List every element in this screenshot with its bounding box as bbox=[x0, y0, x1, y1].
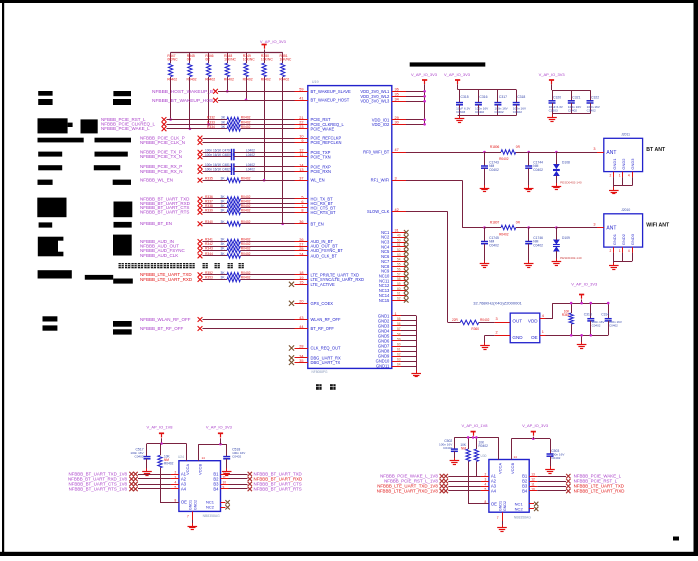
svg-text:C318: C318 bbox=[517, 95, 525, 99]
svg-text:C0603: C0603 bbox=[549, 109, 558, 113]
svg-text:36: 36 bbox=[299, 220, 303, 224]
svg-text:100n 16/1K C482: 100n 16/1K C482 bbox=[205, 168, 230, 172]
svg-text:21: 21 bbox=[299, 116, 303, 120]
svg-text:DBG_UART_TX: DBG_UART_TX bbox=[311, 360, 341, 365]
svg-text:NC15: NC15 bbox=[379, 298, 390, 303]
svg-text:NC2: NC2 bbox=[515, 506, 524, 511]
svg-text:C315: C315 bbox=[461, 95, 469, 99]
svg-text:BT_RF_OFF: BT_RF_OFF bbox=[311, 326, 335, 331]
svg-text:VDD: VDD bbox=[528, 319, 538, 324]
svg-text:R360: R360 bbox=[471, 327, 479, 331]
svg-text:30: 30 bbox=[395, 121, 399, 125]
svg-text:BT ANT: BT ANT bbox=[646, 147, 666, 153]
svg-text:NFBBB_HOST_WAKEUP_BT: NFBBB_HOST_WAKEUP_BT bbox=[152, 89, 216, 95]
svg-text:4: 4 bbox=[485, 482, 487, 486]
svg-text:GND1: GND1 bbox=[498, 501, 502, 511]
svg-text:7: 7 bbox=[497, 516, 499, 520]
svg-text:GND3: GND3 bbox=[630, 233, 635, 245]
svg-text:2: 2 bbox=[175, 470, 177, 474]
svg-text:U19: U19 bbox=[312, 80, 319, 84]
svg-text:2: 2 bbox=[610, 249, 612, 253]
svg-text:NFBBB_PCIE_CLK_N: NFBBB_PCIE_CLK_N bbox=[140, 140, 185, 145]
svg-text:R0402: R0402 bbox=[224, 78, 234, 82]
svg-text:C322: C322 bbox=[591, 96, 599, 100]
svg-text:VCCB: VCCB bbox=[510, 463, 515, 474]
svg-text:58: 58 bbox=[397, 277, 401, 281]
svg-text:4: 4 bbox=[628, 174, 630, 178]
svg-text:18: 18 bbox=[299, 271, 303, 275]
svg-text:5: 5 bbox=[485, 487, 487, 491]
svg-text:RF1_WIFI: RF1_WIFI bbox=[371, 178, 390, 183]
svg-text:0R/NC: 0R/NC bbox=[167, 57, 178, 61]
svg-text:32.768KHz(X4G)Z2000001: 32.768KHz(X4G)Z2000001 bbox=[473, 300, 522, 305]
svg-text:R344: R344 bbox=[205, 252, 213, 256]
svg-text:63: 63 bbox=[397, 358, 401, 362]
svg-text:C0603: C0603 bbox=[456, 110, 465, 114]
svg-text:C314: C314 bbox=[601, 313, 609, 317]
svg-text:OE: OE bbox=[181, 500, 187, 505]
svg-text:15: 15 bbox=[299, 281, 303, 285]
svg-text:C0402: C0402 bbox=[134, 455, 143, 459]
svg-text:64: 64 bbox=[397, 363, 401, 367]
svg-text:C0402: C0402 bbox=[551, 456, 560, 460]
svg-text:8: 8 bbox=[485, 500, 487, 504]
svg-text:VCCB: VCCB bbox=[198, 464, 203, 475]
svg-text:R336: R336 bbox=[205, 195, 213, 199]
svg-text:12: 12 bbox=[531, 477, 535, 481]
svg-text:35: 35 bbox=[395, 93, 399, 97]
svg-text:0R: 0R bbox=[187, 57, 192, 61]
svg-text:54: 54 bbox=[397, 258, 401, 262]
svg-text:V_AP_IO_3V3: V_AP_IO_3V3 bbox=[411, 72, 438, 77]
svg-text:C316: C316 bbox=[479, 95, 487, 99]
svg-text:R0402: R0402 bbox=[261, 78, 271, 82]
svg-text:GND1: GND1 bbox=[612, 233, 617, 245]
svg-text:12: 12 bbox=[223, 470, 227, 474]
svg-text:R335: R335 bbox=[205, 176, 213, 180]
svg-text:51: 51 bbox=[397, 243, 401, 247]
svg-text:VCCA: VCCA bbox=[497, 463, 502, 474]
svg-text:59: 59 bbox=[299, 88, 303, 92]
svg-text:V_AP_IO_3V3: V_AP_IO_3V3 bbox=[539, 72, 566, 77]
svg-text:59: 59 bbox=[397, 337, 401, 341]
svg-text:R0402: R0402 bbox=[205, 78, 215, 82]
svg-text:PESD0402-140: PESD0402-140 bbox=[560, 181, 582, 185]
svg-text:R334: R334 bbox=[207, 125, 215, 129]
svg-text:R1807: R1807 bbox=[490, 220, 500, 224]
svg-text:SLOW_CLK: SLOW_CLK bbox=[367, 209, 390, 214]
svg-text:PCIE_RXN: PCIE_RXN bbox=[311, 169, 332, 174]
svg-text:D108: D108 bbox=[562, 161, 570, 165]
svg-text:PCIE_REFCLKN: PCIE_REFCLKN bbox=[311, 140, 342, 145]
svg-text:U30: U30 bbox=[481, 454, 487, 458]
svg-text:C313: C313 bbox=[584, 313, 592, 317]
svg-text:VDD_IO2: VDD_IO2 bbox=[372, 122, 390, 127]
svg-text:R0402: R0402 bbox=[499, 157, 509, 161]
svg-text:27: 27 bbox=[299, 242, 303, 246]
svg-text:R337: R337 bbox=[205, 200, 213, 204]
svg-text:3: 3 bbox=[175, 475, 177, 479]
svg-text:HCI_RTS_BT: HCI_RTS_BT bbox=[311, 210, 336, 215]
svg-text:9: 9 bbox=[301, 139, 303, 143]
svg-text:4: 4 bbox=[175, 480, 177, 484]
svg-text:3: 3 bbox=[496, 317, 498, 321]
svg-text:B4: B4 bbox=[522, 488, 528, 493]
svg-text:3: 3 bbox=[485, 477, 487, 481]
svg-text:41: 41 bbox=[299, 97, 303, 101]
svg-text:61: 61 bbox=[397, 347, 401, 351]
svg-text:10: 10 bbox=[223, 480, 227, 484]
svg-text:10K/NC: 10K/NC bbox=[280, 57, 292, 61]
svg-text:RF0_WIFI_BT: RF0_WIFI_BT bbox=[363, 150, 390, 155]
svg-text:ANT: ANT bbox=[606, 225, 616, 231]
svg-text:20: 20 bbox=[299, 300, 303, 304]
svg-text:7: 7 bbox=[187, 515, 189, 519]
svg-text:R0402: R0402 bbox=[241, 176, 251, 180]
svg-text:R341: R341 bbox=[205, 238, 213, 242]
svg-text:R342: R342 bbox=[205, 242, 213, 246]
svg-text:1: 1 bbox=[542, 330, 544, 334]
svg-text:NFBBB_BT_UART_RTS: NFBBB_BT_UART_RTS bbox=[140, 210, 189, 215]
svg-text:62: 62 bbox=[397, 297, 401, 301]
svg-text:10K/NC: 10K/NC bbox=[243, 57, 255, 61]
svg-text:GND2: GND2 bbox=[621, 158, 626, 170]
svg-text:GND: GND bbox=[512, 335, 523, 340]
svg-text:A4: A4 bbox=[491, 488, 497, 493]
svg-text:C0402: C0402 bbox=[533, 168, 543, 172]
svg-text:V_AP_IO_1V8: V_AP_IO_1V8 bbox=[147, 425, 174, 430]
svg-text:C321: C321 bbox=[572, 96, 580, 100]
svg-text:60: 60 bbox=[397, 342, 401, 346]
svg-text:GND2: GND2 bbox=[193, 500, 197, 510]
svg-text:C0402: C0402 bbox=[232, 455, 241, 459]
svg-text:R0402: R0402 bbox=[243, 78, 253, 82]
svg-text:57: 57 bbox=[397, 327, 401, 331]
svg-text:5: 5 bbox=[301, 195, 303, 199]
svg-text:BT_EN: BT_EN bbox=[311, 221, 324, 226]
svg-text:V_AP_IO_3V3: V_AP_IO_3V3 bbox=[522, 423, 549, 428]
svg-text:WLAN_RF_OFF: WLAN_RF_OFF bbox=[311, 317, 342, 322]
svg-text:1: 1 bbox=[619, 249, 621, 253]
svg-text:61: 61 bbox=[397, 292, 401, 296]
svg-text:OE: OE bbox=[491, 501, 497, 506]
svg-text:57: 57 bbox=[397, 272, 401, 276]
svg-text:LTE_ACTIVE: LTE_ACTIVE bbox=[311, 282, 336, 287]
svg-text:1: 1 bbox=[619, 174, 621, 178]
svg-text:8: 8 bbox=[175, 499, 177, 503]
svg-text:NFBBB_LTE_UART_RXD: NFBBB_LTE_UART_RXD bbox=[140, 277, 193, 282]
svg-text:V_AP_IO_3V3: V_AP_IO_3V3 bbox=[571, 282, 598, 287]
svg-text:GND3: GND3 bbox=[630, 158, 635, 170]
svg-text:NFBBB_WL_EN: NFBBB_WL_EN bbox=[140, 178, 173, 183]
svg-text:GPS_COEX: GPS_COEX bbox=[311, 301, 334, 306]
svg-text:R0402: R0402 bbox=[241, 121, 251, 125]
svg-text:100n 16/1K C481: 100n 16/1K C481 bbox=[205, 163, 230, 167]
svg-text:ANT: ANT bbox=[606, 150, 616, 156]
svg-text:13: 13 bbox=[299, 168, 303, 172]
svg-text:NFBBB_BT_UART_RTS: NFBBB_BT_UART_RTS bbox=[254, 486, 302, 491]
svg-text:26: 26 bbox=[299, 238, 303, 242]
svg-text:8: 8 bbox=[301, 209, 303, 213]
svg-text:2: 2 bbox=[485, 472, 487, 476]
svg-text:0R: 0R bbox=[205, 57, 210, 61]
svg-text:28: 28 bbox=[299, 344, 303, 348]
svg-text:2: 2 bbox=[496, 331, 498, 335]
svg-text:GND1: GND1 bbox=[189, 500, 193, 510]
svg-text:GND11: GND11 bbox=[376, 364, 390, 369]
svg-text:3: 3 bbox=[593, 147, 595, 151]
svg-text:AUD_CLK_BT: AUD_CLK_BT bbox=[311, 253, 338, 258]
svg-text:OE: OE bbox=[531, 335, 538, 340]
svg-text:WIFI ANT: WIFI ANT bbox=[646, 222, 670, 228]
svg-text:NM: NM bbox=[461, 447, 466, 451]
svg-text:R0402: R0402 bbox=[241, 209, 251, 213]
svg-text:35: 35 bbox=[299, 359, 303, 363]
svg-text:25: 25 bbox=[299, 247, 303, 251]
svg-text:53: 53 bbox=[397, 253, 401, 257]
svg-text:R0402: R0402 bbox=[499, 233, 509, 237]
svg-text:44: 44 bbox=[299, 325, 303, 329]
svg-text:9: 9 bbox=[223, 485, 225, 489]
svg-text:NFBBB_WLAN_RF_OFF: NFBBB_WLAN_RF_OFF bbox=[140, 317, 191, 322]
svg-text:22R: 22R bbox=[452, 318, 459, 322]
svg-text:V_AP_IO_3V3: V_AP_IO_3V3 bbox=[260, 39, 287, 44]
svg-text:NFBBB_PCIE_WAKE_L: NFBBB_PCIE_WAKE_L bbox=[101, 126, 150, 131]
svg-text:R339: R339 bbox=[205, 209, 213, 213]
svg-text:GND2: GND2 bbox=[621, 233, 626, 245]
svg-text:24: 24 bbox=[299, 252, 303, 256]
svg-text:L0402: L0402 bbox=[246, 149, 255, 153]
svg-text:V_AP_IO_3V3: V_AP_IO_3V3 bbox=[206, 425, 233, 430]
svg-text:C0402: C0402 bbox=[475, 110, 484, 114]
svg-text:11: 11 bbox=[531, 482, 535, 486]
svg-text:NFBBB_BT_EN: NFBBB_BT_EN bbox=[140, 221, 172, 226]
svg-text:58: 58 bbox=[397, 332, 401, 336]
svg-text:R353: R353 bbox=[205, 276, 213, 280]
svg-text:OUT: OUT bbox=[512, 319, 522, 324]
svg-text:PCIE_TXN: PCIE_TXN bbox=[311, 154, 331, 159]
svg-text:R1806: R1806 bbox=[490, 145, 500, 149]
svg-text:NFBBB_AUD_CLK: NFBBB_AUD_CLK bbox=[140, 253, 178, 258]
svg-text:R0402: R0402 bbox=[164, 462, 174, 466]
svg-text:100n 16/1K C479: 100n 16/1K C479 bbox=[205, 149, 230, 153]
svg-text:C0402: C0402 bbox=[592, 323, 601, 327]
svg-text:GND1: GND1 bbox=[612, 158, 617, 170]
svg-text:NF8088PG: NF8088PG bbox=[312, 370, 328, 374]
svg-text:31: 31 bbox=[395, 229, 399, 233]
svg-text:R338: R338 bbox=[205, 204, 213, 208]
svg-text:55: 55 bbox=[397, 263, 401, 267]
svg-text:R0402: R0402 bbox=[187, 78, 197, 82]
svg-text:60: 60 bbox=[397, 287, 401, 291]
svg-text:V_AP_IO_3V3: V_AP_IO_3V3 bbox=[444, 72, 471, 77]
svg-text:50: 50 bbox=[397, 238, 401, 242]
svg-text:59: 59 bbox=[397, 282, 401, 286]
svg-text:NFBBB_LTE_UART_RXD_1V8: NFBBB_LTE_UART_RXD_1V8 bbox=[377, 488, 439, 493]
svg-text:10K/NC: 10K/NC bbox=[261, 57, 273, 61]
svg-text:14: 14 bbox=[299, 163, 303, 167]
svg-text:R0402: R0402 bbox=[241, 242, 251, 246]
svg-text:PESD0402-140: PESD0402-140 bbox=[560, 256, 582, 260]
svg-text:C0402: C0402 bbox=[609, 323, 618, 327]
svg-text:5: 5 bbox=[175, 485, 177, 489]
svg-text:NFBBB_BT_UART_RTS_1V8: NFBBB_BT_UART_RTS_1V8 bbox=[69, 486, 128, 491]
svg-text:34: 34 bbox=[299, 354, 303, 358]
svg-text:10: 10 bbox=[531, 487, 535, 491]
svg-text:22: 22 bbox=[299, 121, 303, 125]
svg-text:NFBBB_LTE_UART_RXD: NFBBB_LTE_UART_RXD bbox=[574, 488, 625, 493]
svg-text:56: 56 bbox=[397, 268, 401, 272]
svg-text:C317: C317 bbox=[499, 95, 507, 99]
svg-text:R0402: R0402 bbox=[167, 78, 177, 82]
svg-text:NFBBB_AUD_FSYNC: NFBBB_AUD_FSYNC bbox=[140, 248, 186, 253]
svg-text:42: 42 bbox=[395, 208, 399, 212]
svg-text:C0402: C0402 bbox=[513, 110, 522, 114]
svg-text:A4: A4 bbox=[181, 486, 187, 491]
svg-text:D109: D109 bbox=[562, 236, 570, 240]
svg-text:U24: U24 bbox=[178, 455, 184, 459]
svg-text:19: 19 bbox=[299, 276, 303, 280]
svg-text:NFBBB_PCIE_TX_N: NFBBB_PCIE_TX_N bbox=[140, 154, 182, 159]
svg-text:C320: C320 bbox=[553, 96, 561, 100]
svg-text:6: 6 bbox=[301, 200, 303, 204]
svg-text:R0402: R0402 bbox=[279, 78, 289, 82]
svg-text:VDD_3V0_WL3: VDD_3V0_WL3 bbox=[360, 99, 390, 104]
svg-text:BT_WAKEUP_HOST: BT_WAKEUP_HOST bbox=[311, 98, 350, 103]
svg-text:R332: R332 bbox=[207, 116, 215, 120]
svg-text:1: 1 bbox=[395, 312, 397, 316]
svg-text:AUD_FSYNC_BT: AUD_FSYNC_BT bbox=[311, 248, 344, 253]
svg-text:NB8358AG: NB8358AG bbox=[514, 516, 532, 520]
svg-text:43: 43 bbox=[299, 316, 303, 320]
svg-text:23: 23 bbox=[299, 125, 303, 129]
svg-text:3: 3 bbox=[395, 176, 397, 180]
svg-text:C0402: C0402 bbox=[568, 109, 577, 113]
svg-text:12: 12 bbox=[299, 149, 303, 153]
svg-text:10K/NC: 10K/NC bbox=[224, 57, 236, 61]
svg-text:56: 56 bbox=[397, 322, 401, 326]
svg-text:C0402: C0402 bbox=[489, 168, 499, 172]
svg-text:29: 29 bbox=[395, 116, 399, 120]
svg-text:14: 14 bbox=[514, 455, 518, 459]
svg-text:R352: R352 bbox=[205, 271, 213, 275]
svg-text:J2010: J2010 bbox=[621, 208, 630, 212]
svg-text:NFBBB_BT_WAKEUP_HOST: NFBBB_BT_WAKEUP_HOST bbox=[152, 98, 216, 104]
svg-text:47: 47 bbox=[395, 148, 399, 152]
svg-text:V_AP_IO_1V8: V_AP_IO_1V8 bbox=[462, 423, 489, 428]
svg-text:C0402: C0402 bbox=[495, 110, 504, 114]
svg-text:13: 13 bbox=[531, 472, 535, 476]
svg-text:NFBBB_PCIE_RX_N: NFBBB_PCIE_RX_N bbox=[140, 169, 183, 174]
svg-text:0R: 0R bbox=[516, 220, 521, 224]
svg-text:3: 3 bbox=[593, 223, 595, 227]
svg-text:GND2: GND2 bbox=[503, 501, 507, 511]
svg-text:7: 7 bbox=[301, 204, 303, 208]
svg-text:J2011: J2011 bbox=[621, 133, 630, 137]
svg-text:49: 49 bbox=[397, 234, 401, 238]
svg-text:4: 4 bbox=[542, 314, 544, 318]
svg-text:R0402: R0402 bbox=[479, 444, 489, 448]
svg-text:C0402: C0402 bbox=[587, 109, 596, 113]
svg-text:10: 10 bbox=[299, 134, 303, 138]
svg-text:11: 11 bbox=[223, 475, 227, 479]
svg-text:2: 2 bbox=[610, 174, 612, 178]
svg-text:C0402: C0402 bbox=[533, 243, 543, 247]
svg-text:B4: B4 bbox=[213, 486, 219, 491]
svg-text:34: 34 bbox=[395, 97, 399, 101]
svg-text:NFBBB_BT_RF_OFF: NFBBB_BT_RF_OFF bbox=[140, 326, 184, 331]
svg-text:14: 14 bbox=[202, 456, 206, 460]
svg-text:11: 11 bbox=[300, 153, 304, 157]
svg-text:100n 16/1K C480: 100n 16/1K C480 bbox=[205, 153, 230, 157]
svg-text:52: 52 bbox=[397, 248, 401, 252]
svg-text:R361: R361 bbox=[562, 313, 570, 317]
svg-text:CLK_REQ_OUT: CLK_REQ_OUT bbox=[311, 346, 342, 351]
svg-text:PCIE_WAKE: PCIE_WAKE bbox=[311, 126, 335, 131]
svg-text:62: 62 bbox=[397, 352, 401, 356]
svg-text:R340: R340 bbox=[205, 220, 213, 224]
svg-text:WL_EN: WL_EN bbox=[311, 178, 325, 183]
svg-text:R0402: R0402 bbox=[480, 318, 490, 322]
svg-text:NB8358AG: NB8358AG bbox=[203, 514, 221, 518]
svg-text:55: 55 bbox=[397, 317, 401, 321]
svg-text:NC2: NC2 bbox=[206, 505, 215, 510]
svg-text:C0402: C0402 bbox=[489, 243, 499, 247]
svg-text:C0402: C0402 bbox=[443, 446, 452, 450]
svg-text:BT_WAKEUP_SLAVE: BT_WAKEUP_SLAVE bbox=[311, 89, 352, 94]
svg-text:R333: R333 bbox=[207, 121, 215, 125]
svg-text:37: 37 bbox=[299, 177, 303, 181]
svg-text:36: 36 bbox=[395, 88, 399, 92]
svg-text:4: 4 bbox=[628, 249, 630, 253]
svg-text:0R: 0R bbox=[516, 145, 521, 149]
svg-text:R343: R343 bbox=[205, 247, 213, 251]
